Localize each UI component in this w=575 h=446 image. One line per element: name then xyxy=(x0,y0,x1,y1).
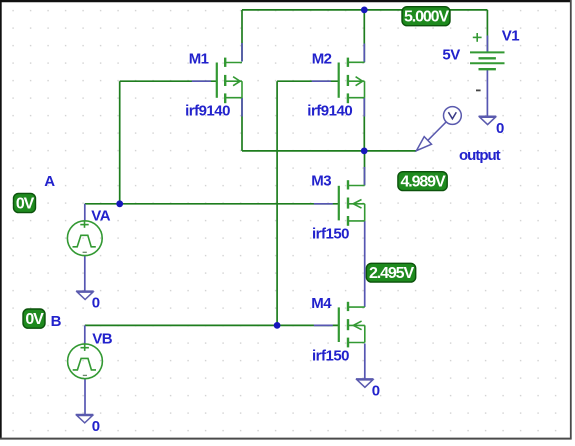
wire M1 source down xyxy=(241,98,243,151)
svg-text:5V: 5V xyxy=(442,47,460,64)
svg-text:B: B xyxy=(51,313,62,330)
svg-text:0: 0 xyxy=(92,294,100,311)
pin M2 gate xyxy=(312,80,331,82)
ground under V1 xyxy=(479,116,497,124)
ground under VB xyxy=(76,415,94,423)
source VA (pulse) xyxy=(67,221,102,256)
wire M2 source down xyxy=(363,98,365,151)
wire M2 drain drop xyxy=(363,10,365,62)
svg-text:M3: M3 xyxy=(311,173,331,190)
source VB (pulse) xyxy=(68,344,103,379)
pin M2 drain xyxy=(363,44,365,63)
svg-text:4.989V: 4.989V xyxy=(400,173,446,190)
bias label 5.000V xyxy=(402,7,450,26)
pin M3 gate xyxy=(314,203,333,205)
pin M1 drain xyxy=(241,43,243,62)
bias label 4.989V xyxy=(398,172,447,191)
voltage probe at output xyxy=(416,107,461,151)
probe V letter xyxy=(448,112,456,119)
svg-text:output: output xyxy=(459,147,501,164)
battery V1 minus mark xyxy=(476,89,481,91)
svg-text:A: A xyxy=(44,173,55,190)
pin M3 source to M4 drain xyxy=(364,221,366,307)
bias label 0V at A xyxy=(14,193,36,212)
junction dot node B xyxy=(274,322,281,329)
svg-text:VA: VA xyxy=(91,207,110,224)
wire output net xyxy=(242,150,416,152)
pin M3 drain xyxy=(364,167,366,186)
ground under VA xyxy=(76,291,94,299)
svg-text:0: 0 xyxy=(496,120,504,137)
svg-text:irf150: irf150 xyxy=(312,226,349,243)
pin M1 source xyxy=(241,98,243,117)
svg-text:5.000V: 5.000V xyxy=(404,9,450,26)
pin VB minus to ground xyxy=(84,379,86,415)
bias label 0V at B xyxy=(23,309,45,328)
wire top VDD rail xyxy=(242,9,487,11)
svg-text:M1: M1 xyxy=(189,51,209,68)
wire node A horizontal xyxy=(85,203,339,205)
svg-text:0: 0 xyxy=(372,383,380,400)
wire M1 drain drop xyxy=(241,10,243,62)
pin VA plus xyxy=(84,204,86,221)
ground under M4 xyxy=(356,379,374,387)
frame border xyxy=(0,0,572,2)
wire node B horizontal xyxy=(85,324,339,326)
svg-text:VB: VB xyxy=(92,331,113,348)
wire M2 gate lead xyxy=(277,80,339,82)
svg-text:V1: V1 xyxy=(502,28,520,45)
wire node A vertical xyxy=(119,81,121,204)
svg-text:0V: 0V xyxy=(16,195,35,212)
junction dot output node xyxy=(361,148,368,155)
svg-text:M4: M4 xyxy=(311,295,332,312)
pin M2 source xyxy=(363,98,365,117)
pin V1 plus xyxy=(486,36,488,53)
svg-text:0V: 0V xyxy=(25,311,44,328)
junction dot node A xyxy=(116,200,123,207)
transistor M4 (NMOS irf150) xyxy=(339,302,365,348)
junction dot VDD rail xyxy=(361,6,368,13)
bias label 2.495V xyxy=(366,263,415,282)
pin VA minus to ground xyxy=(84,256,86,291)
pin V1 minus to ground xyxy=(486,69,488,116)
svg-text:2.495V: 2.495V xyxy=(369,265,415,282)
wire node B vertical xyxy=(276,81,278,325)
pin M1 gate xyxy=(192,80,211,82)
svg-text:irf9140: irf9140 xyxy=(307,103,352,120)
svg-text:irf9140: irf9140 xyxy=(185,103,230,120)
svg-text:0: 0 xyxy=(92,418,100,435)
svg-text:M2: M2 xyxy=(312,50,332,67)
pin M4 source to ground xyxy=(364,344,366,379)
transistor M2 (PMOS irf9140) xyxy=(339,58,365,104)
wire M1 gate lead xyxy=(120,80,217,82)
transistor M3 (NMOS irf150) xyxy=(339,180,365,226)
pin M4 gate xyxy=(314,324,333,326)
pin VB plus xyxy=(84,325,86,344)
transistor M1 (PMOS irf9140) xyxy=(217,58,242,104)
wire V1 top drop xyxy=(486,10,488,52)
svg-text:irf150: irf150 xyxy=(312,348,349,365)
wire M3 drain up xyxy=(364,151,366,186)
battery V1 xyxy=(470,33,505,69)
